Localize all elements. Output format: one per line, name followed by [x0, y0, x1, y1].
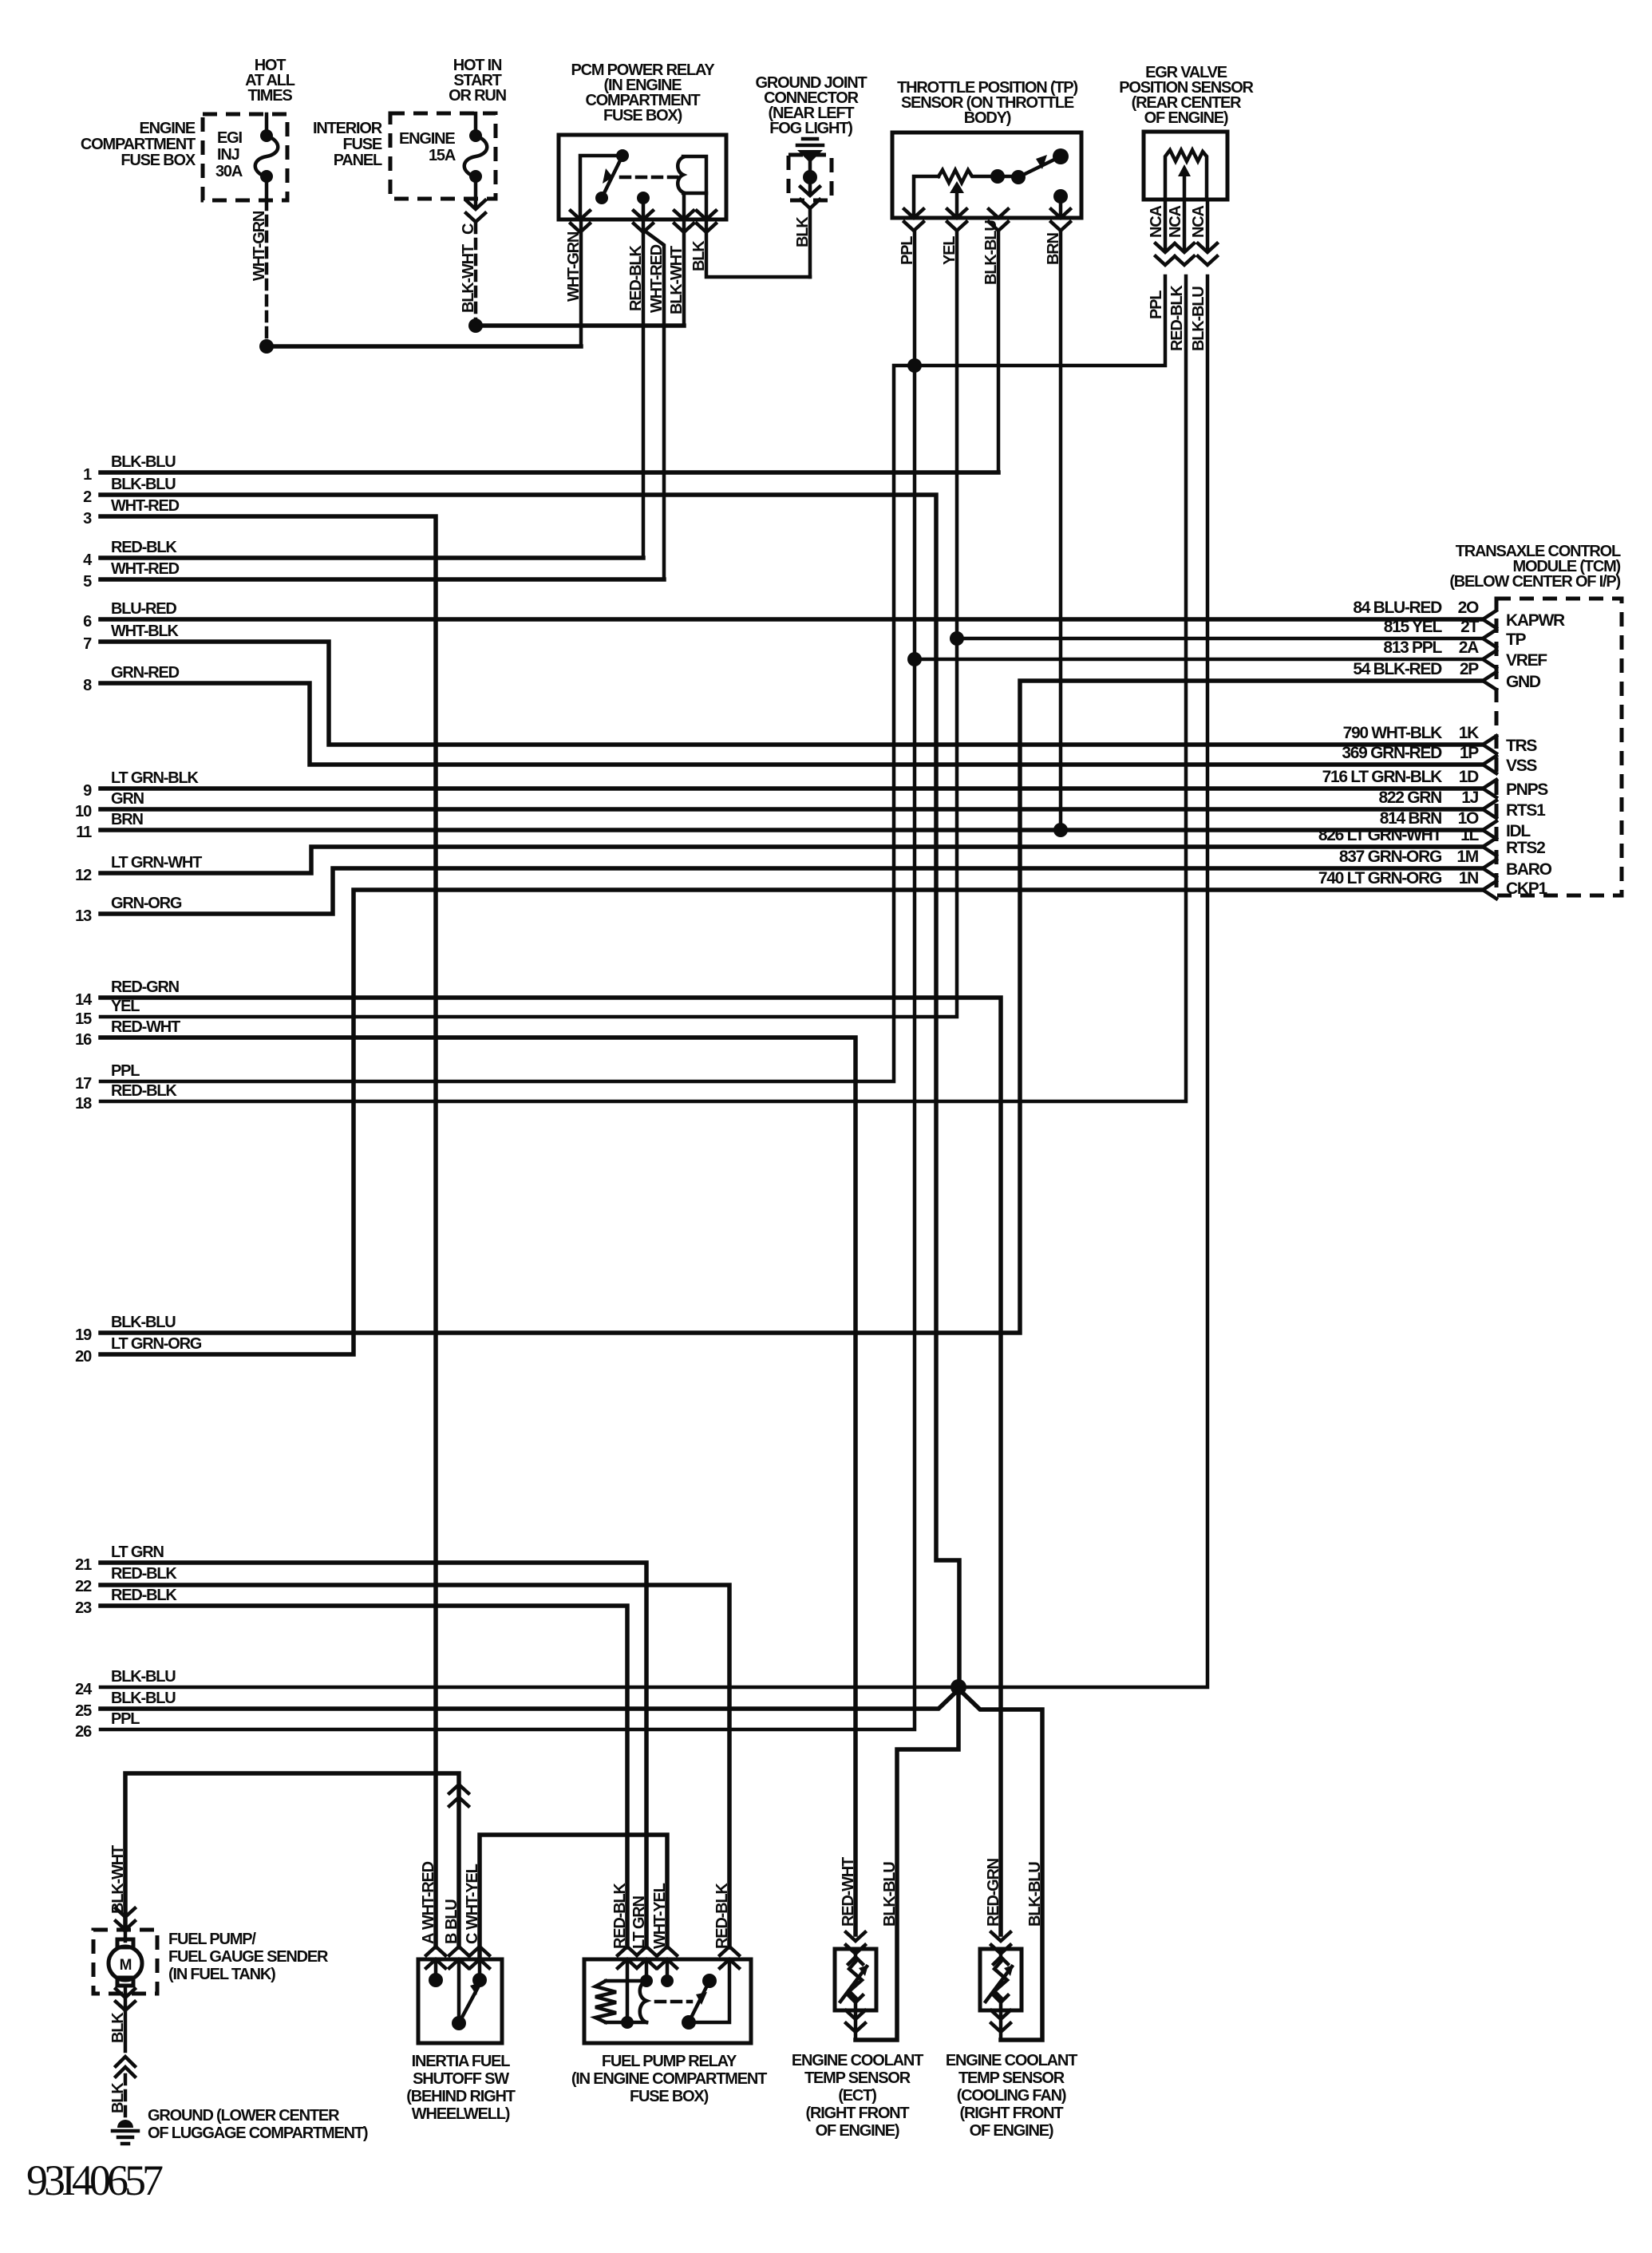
wire row 13 GRN-ORG to TCM BARO: [101, 868, 1483, 914]
wire row 7 WHT-BLK to TCM TRS: [101, 642, 1483, 745]
TCM pin CKP1: [1483, 881, 1496, 899]
svg-text:BLK: BLK: [690, 240, 708, 271]
svg-text:LT GRN-BLK: LT GRN-BLK: [111, 769, 199, 787]
svg-text:BLK-WHT: BLK-WHT: [460, 244, 477, 313]
motor M1 fuel pump: [109, 1930, 142, 1994]
svg-text:GRN-RED: GRN-RED: [111, 664, 180, 682]
svg-text:OF ENGINE): OF ENGINE): [1144, 109, 1228, 127]
fuel pump relay box: [584, 1959, 751, 2043]
svg-text:BARO: BARO: [1506, 860, 1552, 879]
svg-text:INJ: INJ: [217, 146, 239, 164]
svg-text:2: 2: [83, 488, 92, 506]
label: FUEL PUMP / FUEL GAUGE SENDER: [168, 1931, 329, 1983]
svg-text:RED-BLK: RED-BLK: [1168, 285, 1186, 351]
svg-text:(IN FUEL TANK): (IN FUEL TANK): [168, 1966, 275, 1983]
svg-text:12: 12: [75, 867, 92, 884]
EGR sensor box: [1144, 132, 1227, 200]
TCM pin VREF: [1483, 650, 1496, 668]
svg-text:YEL: YEL: [941, 236, 958, 265]
svg-text:BLK-BLU: BLK-BLU: [111, 1668, 176, 1686]
wire RED-BLK from EGR down to row 18: [101, 276, 1186, 1101]
node PPL junction at EGR link: [907, 358, 922, 373]
inline connector chevrons on BLK: [116, 2057, 135, 2077]
svg-text:BLK-BLU: BLK-BLU: [111, 476, 176, 493]
svg-text:RED-BLK: RED-BLK: [111, 1587, 177, 1604]
wire YEL from TP sensor down to row 15: [101, 231, 957, 1017]
fuse box: EGI INJ 30A (dashed): [203, 114, 287, 200]
ground G1 (luggage compartment): [113, 2120, 138, 2144]
svg-text:GND: GND: [1506, 673, 1541, 691]
TCM pin TRS: [1483, 736, 1496, 753]
svg-text:RED-BLK: RED-BLK: [627, 245, 645, 311]
svg-text:1K: 1K: [1459, 724, 1479, 742]
svg-text:EGI: EGI: [217, 129, 242, 147]
svg-text:1O: 1O: [1458, 809, 1479, 828]
node PPL junction at VREF: [907, 652, 922, 666]
svg-text:BLK: BLK: [109, 2082, 127, 2113]
ground symbol (joint connector): [797, 139, 823, 172]
svg-text:(BELOW CENTER OF I/P): (BELOW CENTER OF I/P): [1449, 573, 1620, 591]
wire row 12 LT GRN-WHT to TCM RTS2: [101, 847, 1483, 873]
svg-text:15A: 15A: [429, 147, 456, 164]
thermistor RT1 engine coolant temp sensor (ECT): [835, 1949, 876, 2010]
svg-text:93I40657: 93I40657: [26, 2156, 163, 2204]
label: HOT AT ALL TIMES: [245, 57, 295, 105]
relay K1 coil: [678, 156, 706, 219]
svg-text:BLK-BLU: BLK-BLU: [111, 1314, 176, 1331]
fuse F2 ENGINE 15A symbol: [464, 113, 488, 199]
svg-text:LT GRN: LT GRN: [630, 1895, 648, 1949]
svg-text:BRN: BRN: [1045, 233, 1062, 265]
wire BLK-BLU junction down to ECT sensor: [856, 1687, 958, 2040]
svg-text:1D: 1D: [1459, 768, 1479, 786]
svg-text:19: 19: [75, 1326, 92, 1344]
label: PCM POWER RELAY: [571, 61, 715, 125]
svg-text:2O: 2O: [1458, 599, 1479, 617]
svg-text:BLK-BLU: BLK-BLU: [1190, 287, 1207, 351]
label: GROUND JOINT CONNECTOR: [756, 74, 867, 137]
label: THROTTLE POSITION (TP) SENSOR: [897, 79, 1077, 127]
relay K1 switch contacts: [580, 149, 629, 219]
label: HOT IN START OR RUN: [449, 57, 506, 105]
wire RED-BLK from relay down to row 4: [642, 219, 646, 558]
svg-text:22: 22: [75, 1578, 92, 1595]
svg-text:RTS2: RTS2: [1506, 839, 1545, 857]
wire row 3 WHT-RED to inertia switch A: [101, 516, 436, 1947]
svg-text:GROUND (LOWER CENTER: GROUND (LOWER CENTER: [148, 2107, 340, 2125]
wire row 8 GRN-RED to TCM VSS: [101, 683, 1483, 765]
svg-text:FUEL GAUGE SENDER: FUEL GAUGE SENDER: [168, 1948, 329, 1966]
svg-text:1M: 1M: [1456, 848, 1478, 866]
wire row 19 BLK-BLU to TCM GND: [101, 681, 1483, 1333]
svg-text:FUEL PUMP/: FUEL PUMP/: [168, 1931, 256, 1948]
svg-text:INTERIOR: INTERIOR: [313, 120, 383, 137]
svg-text:813 PPL: 813 PPL: [1383, 638, 1442, 657]
relay K1 terminal dot RED-BLK: [637, 192, 650, 204]
label: ENGINE COOLANT TEMP SENSOR (ECT): [792, 2052, 923, 2140]
svg-text:LT GRN-ORG: LT GRN-ORG: [111, 1335, 202, 1353]
svg-text:1P: 1P: [1460, 744, 1479, 762]
wire BLK-WHT C dashed: [474, 223, 478, 326]
wire row 2 BLK-BLU to bottom junction: [101, 495, 959, 1687]
wire row 11 BRN to TCM IDL: [101, 828, 1483, 832]
svg-text:16: 16: [75, 1031, 92, 1049]
svg-text:RED-BLK: RED-BLK: [111, 1082, 177, 1100]
fuel pump connector chevrons: [116, 1908, 135, 1930]
svg-text:2A: 2A: [1459, 638, 1479, 657]
TCM pin BARO: [1483, 860, 1496, 877]
wire BLK-BLU junction diagonal to ECT cooling fan sensor: [958, 1689, 1042, 2040]
wire row 22 RED-BLK to fuel pump relay: [101, 1585, 729, 1947]
svg-text:TRS: TRS: [1506, 737, 1537, 755]
svg-text:ENGINE: ENGINE: [399, 130, 455, 148]
connector chevrons: [800, 187, 820, 208]
node dot inside connector: [803, 170, 817, 184]
TCM pin RTS2: [1483, 838, 1496, 856]
svg-text:24: 24: [75, 1681, 93, 1698]
svg-text:FUEL PUMP RELAY: FUEL PUMP RELAY: [602, 2053, 737, 2070]
wire BLK below fuel pump: [116, 1989, 135, 2010]
wire row 10 GRN to TCM RTS1: [101, 807, 1483, 812]
svg-text:(COOLING FAN): (COOLING FAN): [957, 2087, 1066, 2105]
label: ENGINE COMPARTMENT FUSE BOX: [81, 120, 196, 169]
EGR NCA arrows and connectors: [1165, 200, 1207, 249]
wire row 4 RED-BLK: [101, 555, 643, 560]
wire row 23 RED-BLK to fuel pump relay: [101, 1606, 627, 1947]
svg-text:IDL: IDL: [1506, 822, 1531, 840]
svg-text:26: 26: [75, 1723, 92, 1741]
label: TRANSAXLE CONTROL MODULE (TCM): [1449, 543, 1621, 591]
svg-text:54 BLK-RED: 54 BLK-RED: [1353, 660, 1442, 678]
svg-text:WHT-GRN: WHT-GRN: [565, 231, 583, 302]
label: FUEL PUMP RELAY: [571, 2053, 767, 2105]
svg-text:1N: 1N: [1459, 869, 1478, 887]
wire WHT-GRN from relay down: [579, 219, 583, 346]
svg-text:PPL: PPL: [111, 1710, 140, 1728]
svg-text:COMPARTMENT: COMPARTMENT: [81, 136, 196, 153]
svg-text:FOG LIGHT): FOG LIGHT): [769, 120, 852, 137]
svg-text:FUSE BOX): FUSE BOX): [603, 107, 682, 125]
svg-text:WHT-YEL: WHT-YEL: [651, 1883, 669, 1949]
label: INERTIA FUEL SHUTOFF SW: [406, 2053, 515, 2123]
svg-text:FUSE: FUSE: [342, 136, 381, 153]
TCM pin KAPWR: [1483, 611, 1496, 628]
svg-text:TP: TP: [1506, 630, 1527, 649]
svg-text:1: 1: [83, 466, 92, 484]
svg-text:RED-GRN: RED-GRN: [985, 1858, 1002, 1927]
svg-text:FUSE BOX): FUSE BOX): [630, 2088, 709, 2105]
svg-text:(RIGHT FRONT: (RIGHT FRONT: [806, 2105, 910, 2122]
wire row 25 BLK-BLU diagonal to junction: [101, 1689, 959, 1709]
node: junction dot WHT-GRN: [259, 339, 274, 354]
svg-text:(IN ENGINE COMPARTMENT: (IN ENGINE COMPARTMENT: [571, 2070, 767, 2088]
wire row 9 LT GRN-BLK to TCM PNPS: [101, 786, 1483, 791]
svg-text:TIMES: TIMES: [247, 87, 292, 105]
wire row 1 BLK-BLU: [101, 470, 998, 475]
fuse box: ENGINE 15A (dashed): [390, 113, 496, 199]
TCM dashed box: [1496, 599, 1622, 895]
svg-text:WHT-RED: WHT-RED: [111, 560, 180, 578]
svg-text:11: 11: [76, 824, 92, 841]
wire WHT-GRN dashed from EGI fuse: [265, 200, 269, 346]
inertia switch terminals: [426, 1947, 445, 1968]
svg-text:BLK-BLU: BLK-BLU: [111, 453, 176, 471]
relay terminals chevrons: [571, 211, 590, 232]
svg-text:A: A: [420, 1933, 437, 1944]
svg-text:BRN: BRN: [111, 811, 143, 828]
svg-text:716 LT GRN-BLK: 716 LT GRN-BLK: [1322, 768, 1443, 786]
ground joint connector dashed box: [788, 155, 832, 200]
wire BLK-WHT horizontal to PCM relay: [476, 323, 684, 328]
TCM pin VSS: [1483, 756, 1496, 773]
svg-text:FUSE BOX: FUSE BOX: [121, 152, 196, 169]
svg-text:INERTIA FUEL: INERTIA FUEL: [412, 2053, 511, 2070]
svg-text:15: 15: [75, 1010, 92, 1028]
svg-text:PPL: PPL: [111, 1062, 140, 1080]
thermistor RT2 engine coolant temp sensor (cooling fan): [980, 1949, 1022, 2010]
svg-text:837 GRN-ORG: 837 GRN-ORG: [1339, 848, 1442, 866]
wire BLK from relay to ground joint connector: [706, 219, 810, 277]
svg-text:RED-WHT: RED-WHT: [111, 1018, 180, 1036]
svg-text:84 BLU-RED: 84 BLU-RED: [1353, 599, 1442, 617]
wire BLK-WHT from relay down: [682, 219, 686, 326]
svg-text:RED-WHT: RED-WHT: [840, 1857, 857, 1927]
svg-text:(ECT): (ECT): [838, 2087, 876, 2105]
svg-text:OF ENGINE): OF ENGINE): [970, 2122, 1053, 2140]
svg-text:369 GRN-RED: 369 GRN-RED: [1342, 744, 1442, 762]
fuel pump / fuel gauge sender dashed box: [93, 1930, 157, 1994]
TP terminals: [904, 209, 923, 231]
svg-text:RED-GRN: RED-GRN: [111, 978, 180, 996]
svg-text:BLK-WHT: BLK-WHT: [109, 1845, 127, 1914]
svg-text:TEMP SENSOR: TEMP SENSOR: [804, 2069, 911, 2087]
ECT sensor (cooling fan): [991, 1932, 1010, 1954]
svg-text:3: 3: [83, 510, 92, 528]
svg-text:17: 17: [75, 1075, 92, 1093]
svg-text:WHT-RED: WHT-RED: [420, 1861, 437, 1930]
TP sensor box: [892, 132, 1081, 218]
svg-text:7: 7: [83, 635, 92, 653]
svg-text:OF LUGGAGE COMPARTMENT): OF LUGGAGE COMPARTMENT): [148, 2125, 368, 2142]
svg-text:WHT-RED: WHT-RED: [648, 244, 666, 313]
svg-text:822 GRN: 822 GRN: [1379, 789, 1442, 807]
svg-text:1L: 1L: [1460, 826, 1479, 844]
svg-text:BLK: BLK: [794, 216, 812, 247]
svg-text:M: M: [120, 1957, 132, 1974]
svg-text:RED-BLK: RED-BLK: [111, 1565, 177, 1583]
svg-text:ENGINE: ENGINE: [140, 120, 196, 137]
wire WHT-GRN horizontal to PCM relay: [267, 344, 581, 349]
wire WHT-YEL from inertia C to fuel pump relay: [480, 1835, 667, 1959]
svg-text:814 BRN: 814 BRN: [1380, 809, 1441, 828]
svg-text:VSS: VSS: [1506, 757, 1537, 775]
svg-text:ENGINE COOLANT: ENGINE COOLANT: [792, 2052, 923, 2069]
svg-text:WHT-BLK: WHT-BLK: [111, 623, 180, 640]
svg-text:C: C: [460, 223, 477, 235]
svg-text:RED-BLK: RED-BLK: [611, 1883, 629, 1949]
connector on BLK-WHT below fuse panel: [474, 199, 478, 206]
svg-text:BLK-BLU: BLK-BLU: [982, 220, 1000, 285]
svg-text:RED-BLK: RED-BLK: [713, 1883, 731, 1949]
TCM pin IDL: [1483, 821, 1496, 839]
svg-text:CKP1: CKP1: [1506, 879, 1547, 898]
svg-text:VREF: VREF: [1506, 651, 1547, 670]
svg-text:B: B: [443, 1933, 460, 1944]
svg-text:4: 4: [83, 551, 93, 569]
svg-text:2T: 2T: [1460, 618, 1479, 636]
connector on fuel pump B wire: [449, 1785, 468, 1806]
TCM pin RTS1: [1483, 800, 1496, 818]
fuel pump relay internals: [595, 1959, 729, 2030]
fuel pump relay terminals: [618, 1947, 637, 1968]
svg-text:YEL: YEL: [111, 998, 140, 1015]
node BLK-BLU main junction: [950, 1679, 966, 1695]
TCM pin GND: [1483, 672, 1496, 690]
svg-text:WHT-RED: WHT-RED: [111, 497, 180, 515]
svg-text:6: 6: [83, 613, 92, 630]
wire WHT-RED branch from relay to row 5: [643, 230, 664, 579]
svg-text:BLK-BLU: BLK-BLU: [881, 1862, 899, 1927]
wire BLK to relay: [808, 208, 812, 277]
wire BLK-WHT fuel pump feed: [125, 1773, 459, 1947]
svg-text:1J: 1J: [1461, 789, 1478, 807]
svg-text:NCA: NCA: [1167, 206, 1184, 238]
TCM pin PNPS: [1483, 780, 1496, 797]
svg-text:740 LT GRN-ORG: 740 LT GRN-ORG: [1318, 869, 1442, 887]
wire row 5 WHT-RED: [101, 577, 664, 582]
wire BLK dashed to ground: [124, 2075, 128, 2119]
label: GROUND (LOWER CENTER OF LUGGAGE COMPARTMENT): [148, 2107, 368, 2142]
wire row 16 RED-WHT to ECT sensor: [101, 1038, 856, 1935]
svg-text:WHEELWELL): WHEELWELL): [412, 2105, 510, 2123]
svg-text:BLK-BLU: BLK-BLU: [111, 1690, 176, 1707]
svg-text:BLU: BLU: [443, 1899, 460, 1930]
svg-text:BLK: BLK: [109, 2012, 127, 2043]
TP sensor internals: [914, 148, 1069, 218]
relay K1 dashed link: [621, 176, 677, 180]
svg-text:LT GRN: LT GRN: [111, 1544, 164, 1561]
wire BLK-BLU from EGR down to row 24: [101, 276, 1207, 1687]
svg-text:PPL: PPL: [1148, 291, 1165, 319]
svg-text:GRN: GRN: [111, 790, 144, 808]
svg-text:PANEL: PANEL: [334, 152, 382, 169]
svg-text:790 WHT-BLK: 790 WHT-BLK: [1343, 724, 1443, 742]
svg-text:14: 14: [75, 991, 93, 1009]
svg-text:BLK-BLU: BLK-BLU: [1026, 1862, 1044, 1927]
svg-text:21: 21: [75, 1556, 92, 1574]
label: EGR VALVE POSITION SENSOR: [1119, 64, 1254, 127]
svg-text:OF ENGINE): OF ENGINE): [816, 2122, 899, 2140]
inertia switch internals: [429, 1959, 487, 2030]
wire RED-WHT chevrons: [846, 1932, 865, 1954]
svg-text:RTS1: RTS1: [1506, 801, 1546, 820]
svg-text:BODY): BODY): [964, 109, 1011, 127]
wire YEL branch to TCM TP: [957, 637, 1483, 641]
wire PPL from EGR down, left, to row 17: [101, 276, 1165, 1081]
svg-text:PPL: PPL: [899, 236, 916, 265]
node: junction dot BLK-WHT: [468, 318, 483, 333]
svg-text:KAPWR: KAPWR: [1506, 611, 1565, 630]
svg-text:NCA: NCA: [1148, 206, 1165, 238]
svg-text:5: 5: [83, 573, 92, 591]
svg-text:25: 25: [75, 1702, 92, 1720]
svg-text:LT GRN-WHT: LT GRN-WHT: [111, 854, 202, 872]
svg-text:815 YEL: 815 YEL: [1384, 618, 1443, 636]
svg-text:SHUTOFF SW: SHUTOFF SW: [413, 2070, 509, 2088]
svg-text:2P: 2P: [1460, 660, 1479, 678]
svg-text:NCA: NCA: [1190, 206, 1207, 238]
svg-text:BLU-RED: BLU-RED: [111, 600, 176, 618]
svg-text:WHT-GRN: WHT-GRN: [251, 211, 268, 281]
svg-text:20: 20: [75, 1348, 92, 1366]
wire row 14 RED-GRN to ECT cooling fan sensor: [101, 998, 1001, 1935]
label: ENGINE COOLANT TEMP SENSOR (COOLING FAN): [946, 2052, 1077, 2140]
svg-text:23: 23: [75, 1599, 92, 1617]
TCM pin TP: [1483, 630, 1496, 647]
svg-text:BLK-WHT: BLK-WHT: [668, 246, 686, 314]
svg-text:ENGINE COOLANT: ENGINE COOLANT: [946, 2052, 1077, 2069]
node BRN junction on IDL row: [1053, 823, 1068, 837]
svg-text:(RIGHT FRONT: (RIGHT FRONT: [960, 2105, 1064, 2122]
svg-text:9: 9: [83, 782, 92, 800]
wire row 21 LT GRN to fuel pump relay: [101, 1563, 646, 1947]
svg-text:8: 8: [83, 677, 92, 694]
wire BLK-BLU from TP sensor down to row 1: [101, 231, 998, 472]
node YEL junction at TP pin: [950, 631, 964, 646]
svg-text:13: 13: [75, 907, 92, 925]
svg-text:30A: 30A: [215, 163, 243, 180]
svg-text:RED-BLK: RED-BLK: [111, 539, 177, 556]
wire row 6 BLU-RED to TCM KAPWR: [101, 617, 1483, 622]
svg-text:(BEHIND RIGHT: (BEHIND RIGHT: [406, 2088, 515, 2105]
svg-text:GRN-ORG: GRN-ORG: [111, 895, 182, 912]
fuse F1 EGI INJ 30A symbol: [255, 114, 279, 200]
EGR sensor internals: [1165, 150, 1207, 200]
wire PPL branch to TCM VREF: [915, 658, 1483, 662]
wire BRN from TP sensor down to row 11: [1059, 231, 1063, 830]
svg-text:826 LT GRN-WHT: 826 LT GRN-WHT: [1318, 826, 1443, 844]
wire row 20 LT GRN-ORG to TCM CKP1: [101, 890, 1483, 1354]
relay K1 PCM power relay box: [559, 135, 726, 219]
svg-text:OR RUN: OR RUN: [449, 87, 506, 105]
svg-text:PNPS: PNPS: [1506, 781, 1548, 799]
inertia fuel shutoff switch box: [418, 1959, 502, 2043]
svg-text:TEMP SENSOR: TEMP SENSOR: [958, 2069, 1065, 2087]
svg-text:18: 18: [75, 1095, 92, 1113]
wire PPL from TP sensor down to row 26: [101, 231, 915, 1729]
label: INTERIOR FUSE PANEL: [313, 120, 383, 169]
svg-text:10: 10: [75, 803, 92, 820]
